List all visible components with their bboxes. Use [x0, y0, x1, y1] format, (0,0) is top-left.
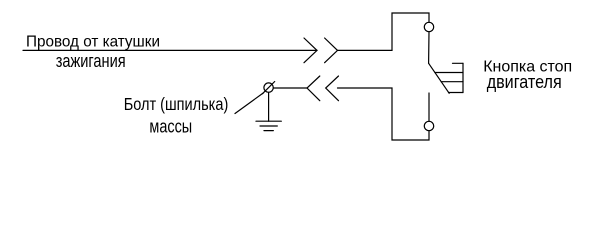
- svg-text:Болт (шпилька): Болт (шпилька): [124, 94, 229, 114]
- svg-text:массы: массы: [149, 116, 192, 136]
- switch SB1 button head bracket vertical: [462, 63, 464, 92]
- switch SB1 button head top arm: [453, 62, 464, 64]
- connector X1 pin (chevron 1 on top wire): [304, 38, 317, 63]
- wire: from bolt down to ground: [268, 92, 270, 121]
- switch SB1 link line lower: [441, 81, 463, 83]
- terminal circle (bottom contact of button): [424, 121, 433, 130]
- svg-text:двигателя: двигателя: [487, 71, 562, 92]
- terminal circle (top contact of button): [424, 22, 433, 31]
- connector X2 socket (chevron on bottom wire, right): [326, 76, 339, 101]
- bolt terminal circle (ground stud): [264, 83, 273, 92]
- connector X2 pin (chevron on bottom wire, left): [307, 76, 320, 101]
- bolt slash through circle: [263, 82, 275, 94]
- wire W1: ignition coil wire (top, underline of label): [23, 49, 317, 51]
- ground symbol bar 1: [256, 120, 281, 122]
- switch SB1 link line upper: [435, 72, 463, 74]
- leader line from label to bolt: [235, 93, 263, 114]
- connector X1 socket (chevron 2 on top wire): [325, 38, 338, 63]
- wire: fixed contact stub from top terminal: [428, 32, 430, 64]
- switch SB1 moving contact (diagonal): [429, 63, 450, 93]
- svg-text:Провод от катушки: Провод от катушки: [26, 34, 160, 51]
- ground symbol bar 2: [260, 125, 277, 127]
- wire W3: bottom wire from switch to connector: [338, 88, 430, 140]
- switch SB1 button head bottom arm: [449, 92, 464, 94]
- svg-text:зажигания: зажигания: [56, 50, 126, 71]
- wire W2: top wire from connector to switch: [338, 13, 430, 50]
- wire: fixed contact stub to bottom terminal: [428, 93, 430, 121]
- wire W4: bottom wire from ground bolt to connector: [273, 87, 307, 89]
- ground symbol bar 3: [264, 130, 273, 132]
